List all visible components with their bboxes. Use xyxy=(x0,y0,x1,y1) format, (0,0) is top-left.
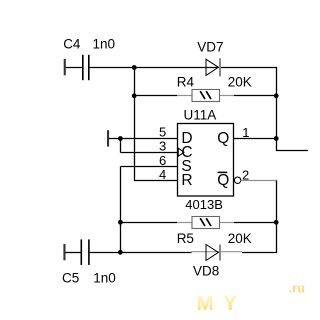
svg-text:M: M xyxy=(197,292,214,315)
svg-text:4013B: 4013B xyxy=(185,197,223,212)
watermark M Y xyxy=(197,291,238,315)
wire (pin Q output) xyxy=(234,138,277,140)
wire (S to C5 vertical) xyxy=(120,167,122,253)
value label 1n0 (C4) xyxy=(93,37,116,52)
label U11A xyxy=(184,107,217,122)
wire xyxy=(66,252,82,254)
pin label Qbar xyxy=(217,172,229,189)
IC U11A 4013B flip-flop body xyxy=(178,124,234,197)
inverter bubble (Qbar output) xyxy=(234,177,240,183)
node junction (D/C tie) xyxy=(118,136,123,141)
pin number 5 xyxy=(159,124,166,139)
value label 1n0 (C5) xyxy=(93,271,116,286)
node junction (C4 / top bus) xyxy=(132,65,137,70)
pin number 3 xyxy=(159,138,166,153)
svg-text:6: 6 xyxy=(159,153,166,168)
label VD7 xyxy=(197,40,223,55)
svg-text:5: 5 xyxy=(159,124,166,139)
wire (pin D) xyxy=(109,138,177,140)
node junction (left bus / R4) xyxy=(132,93,137,98)
terminal X1 (C4 left lead) xyxy=(64,59,66,75)
wire (right bus vertical top) xyxy=(276,67,278,151)
capacitor C4 xyxy=(83,55,89,80)
watermark .ru xyxy=(289,280,306,295)
clock pin triangle xyxy=(178,148,184,156)
svg-text:R4: R4 xyxy=(177,75,195,90)
terminal X2 (C5 left lead) xyxy=(63,244,65,260)
svg-text:R5: R5 xyxy=(177,231,194,246)
wire xyxy=(234,95,277,97)
svg-text:U11A: U11A xyxy=(184,107,217,122)
pin number 6 xyxy=(159,153,166,168)
svg-text:1: 1 xyxy=(242,125,249,140)
svg-text:Q: Q xyxy=(217,130,229,147)
wire (right bus vertical bottom) xyxy=(276,181,278,253)
label C4 xyxy=(63,37,81,52)
node junction (S bus / R5) xyxy=(118,220,123,225)
svg-text:.ru: .ru xyxy=(289,280,306,295)
svg-text:Q: Q xyxy=(217,172,229,189)
wire (pin Qbar output) xyxy=(241,180,277,182)
node junction (right bus / R5) xyxy=(274,220,279,225)
svg-text:4: 4 xyxy=(159,167,166,182)
wire xyxy=(121,222,178,224)
svg-text:20K: 20K xyxy=(228,75,252,90)
wire (left bus vertical) xyxy=(134,68,136,181)
wire (output stub) xyxy=(276,150,308,152)
svg-text:3: 3 xyxy=(159,138,166,153)
terminal S1 (D/C input) xyxy=(107,130,109,146)
svg-text:C5: C5 xyxy=(62,271,79,286)
node junction (right bus / R4) xyxy=(274,93,279,98)
pin number 1 xyxy=(242,125,249,140)
wire xyxy=(66,67,82,69)
pin label D xyxy=(181,130,192,147)
pin number 4 xyxy=(159,167,166,182)
svg-text:20K: 20K xyxy=(228,231,252,246)
wire xyxy=(242,252,277,254)
value label 20K (R5) xyxy=(228,231,252,246)
capacitor C5 xyxy=(81,239,89,265)
svg-text:Y: Y xyxy=(223,291,237,315)
value label 20K (R4) xyxy=(228,75,252,90)
svg-text:1n0: 1n0 xyxy=(93,271,116,286)
svg-text:C4: C4 xyxy=(63,37,81,52)
node junction (Q / right bus) xyxy=(274,136,279,141)
pin label C xyxy=(181,144,192,161)
svg-text:VD8: VD8 xyxy=(193,264,219,279)
pin label R xyxy=(181,172,192,189)
label 4013B xyxy=(185,197,223,212)
pin number 2 xyxy=(242,168,249,183)
diode VD7 xyxy=(206,58,220,76)
wire (pin R) xyxy=(134,180,177,182)
wire xyxy=(90,252,192,254)
svg-text:R: R xyxy=(181,172,192,189)
resistor R4 xyxy=(177,90,234,102)
wire xyxy=(120,139,122,153)
wire (pin C) xyxy=(121,152,178,154)
wire xyxy=(90,67,277,69)
svg-text:1n0: 1n0 xyxy=(93,37,116,52)
label C5 xyxy=(62,271,79,286)
label R4 xyxy=(177,75,195,90)
diode VD8 xyxy=(192,245,243,261)
pin label Q xyxy=(217,130,229,147)
svg-text:VD7: VD7 xyxy=(197,40,223,55)
pin label S xyxy=(181,158,191,175)
wire xyxy=(234,222,277,224)
node junction (C5 / S bus) xyxy=(118,250,123,255)
wire (pin S) xyxy=(121,166,178,168)
label R5 xyxy=(177,231,194,246)
label VD8 xyxy=(193,264,219,279)
wire xyxy=(135,95,178,97)
resistor R5 xyxy=(177,217,234,229)
